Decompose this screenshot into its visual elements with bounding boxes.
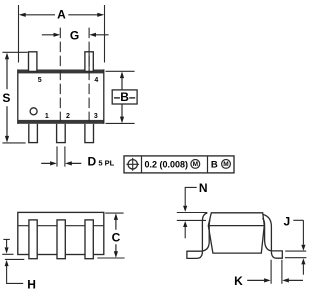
svg-text:3: 3 [94,113,98,120]
svg-text:N: N [199,181,208,195]
svg-text:S: S [2,91,10,105]
svg-text:M: M [193,161,198,168]
svg-text:0.2 (0.008): 0.2 (0.008) [145,159,189,169]
svg-text:D: D [87,155,96,169]
svg-text:2: 2 [66,113,70,120]
svg-text:M: M [223,161,228,168]
svg-text:–B–: –B– [114,90,136,104]
svg-text:G: G [70,29,79,43]
svg-text:B: B [211,160,218,171]
svg-text:5 PL: 5 PL [98,158,114,167]
svg-text:A: A [57,7,66,21]
svg-text:5: 5 [38,77,42,84]
svg-text:C: C [112,230,121,244]
svg-text:K: K [234,274,243,288]
svg-text:4: 4 [94,77,98,84]
svg-text:H: H [27,278,36,292]
svg-text:1: 1 [45,113,49,120]
svg-text:J: J [284,214,291,228]
